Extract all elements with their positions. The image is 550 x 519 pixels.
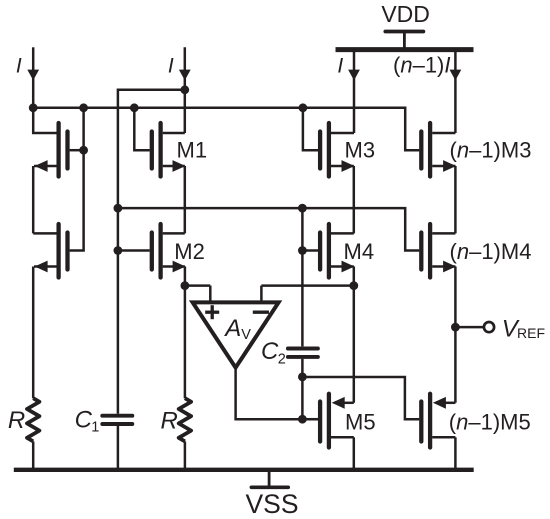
svg-text:I: I bbox=[337, 55, 343, 78]
wire: op-amp + input from M2 source node bbox=[185, 284, 210, 287]
wire: QL gate column x=83.6 bbox=[70, 108, 84, 251]
wire: op-amp output to M5 gate bbox=[236, 367, 318, 419]
node M4 source / op- bbox=[349, 281, 358, 290]
node QL1 gate tap bbox=[79, 146, 88, 155]
transistor (n-1)M5 bbox=[421, 394, 455, 470]
current source I3 arrow from VDD rail bbox=[348, 50, 360, 133]
svg-text:M1: M1 bbox=[177, 137, 208, 162]
svg-text:V: V bbox=[241, 327, 251, 343]
current source I2 arrow bbox=[179, 47, 191, 133]
transistor M3 bbox=[303, 108, 355, 234]
svg-text:M2: M2 bbox=[174, 239, 205, 264]
node QL gate column on bias line bbox=[79, 103, 88, 112]
svg-text:C: C bbox=[261, 338, 279, 365]
svg-text:1: 1 bbox=[91, 420, 99, 436]
node VREF tap bbox=[451, 323, 460, 332]
resistor R1 bbox=[27, 398, 39, 470]
node M1 gate column on bias line bbox=[130, 103, 139, 112]
node M1 drain / I2 bbox=[180, 85, 189, 94]
svg-text:(n–1)M3: (n–1)M3 bbox=[450, 137, 532, 162]
svg-text:I: I bbox=[168, 55, 174, 78]
current source (n-1)I arrow from VDD rail bbox=[450, 50, 462, 133]
wire: M1 drain corner from rail A bbox=[118, 90, 185, 208]
node rail A / M4 gate column bbox=[298, 204, 307, 213]
node QL1 drain / I1 bbox=[29, 103, 38, 112]
svg-text:I: I bbox=[16, 55, 22, 78]
node M2 source / op+ bbox=[181, 281, 190, 290]
wire: M4 gate column x=302.4 from rail A to C2 bbox=[301, 208, 304, 346]
node rail A left bbox=[114, 204, 123, 213]
VDD rail bbox=[336, 47, 474, 52]
wire: op-amp - input to M4 source node bbox=[261, 284, 353, 287]
wire: rail A (M1 drain net) with corner to (n-1)M4 gate bbox=[118, 208, 419, 250]
node C2 bottom bbox=[298, 373, 307, 382]
current source I1 arrow bbox=[27, 47, 39, 108]
transistor (n-1)M4 bbox=[421, 224, 456, 403]
wire: column x=117.9 down to C1 bbox=[117, 208, 120, 414]
svg-text:(n–1)I: (n–1)I bbox=[393, 53, 451, 78]
svg-text:A: A bbox=[223, 315, 241, 342]
svg-text:(n–1)M5: (n–1)M5 bbox=[449, 409, 531, 434]
svg-text:REF: REF bbox=[517, 325, 545, 341]
svg-text:VSS: VSS bbox=[245, 489, 298, 519]
svg-text:VDD: VDD bbox=[381, 1, 430, 27]
node M3 gate column on bias line bbox=[299, 103, 308, 112]
svg-text:2: 2 bbox=[278, 351, 286, 367]
transistor M1 bbox=[134, 108, 185, 234]
op-amp U1 (Av) bbox=[193, 286, 279, 368]
node VREF tap wire bbox=[455, 326, 483, 329]
ground VSS symbol bbox=[251, 470, 288, 487]
VDD power symbol bbox=[385, 32, 423, 49]
capacitor C1 bbox=[102, 416, 132, 470]
svg-text:M5: M5 bbox=[345, 409, 376, 434]
terminal VREF open circle bbox=[484, 322, 494, 332]
svg-text:R: R bbox=[8, 407, 25, 434]
svg-text:(n–1)M4: (n–1)M4 bbox=[450, 239, 532, 264]
transistor QL2 (left bottom, mirrored) bbox=[33, 224, 67, 398]
resistor R2 bbox=[179, 286, 191, 470]
VSS rail bbox=[14, 468, 474, 472]
svg-text:C: C bbox=[75, 407, 93, 434]
svg-text:M3: M3 bbox=[345, 137, 376, 162]
node M2 gate tap bbox=[114, 246, 123, 255]
transistor M4 bbox=[302, 224, 354, 403]
transistor QL1 (left top, mirrored) bbox=[33, 108, 83, 234]
svg-text:M4: M4 bbox=[344, 239, 375, 264]
wire: C2 bottom to (n-1)M5 gate corner bbox=[302, 377, 419, 419]
transistor (n-1)M3 bbox=[421, 123, 456, 233]
transistor M2 bbox=[118, 224, 186, 286]
node M5 gate bbox=[298, 415, 307, 424]
capacitor C2 bbox=[288, 349, 318, 420]
transistor M5 bbox=[302, 394, 353, 470]
wire: gate bias line y=108 with corner to (n-1)M3 gate bbox=[33, 108, 419, 150]
node M4 gate tap bbox=[298, 246, 307, 255]
svg-text:R: R bbox=[161, 408, 178, 435]
